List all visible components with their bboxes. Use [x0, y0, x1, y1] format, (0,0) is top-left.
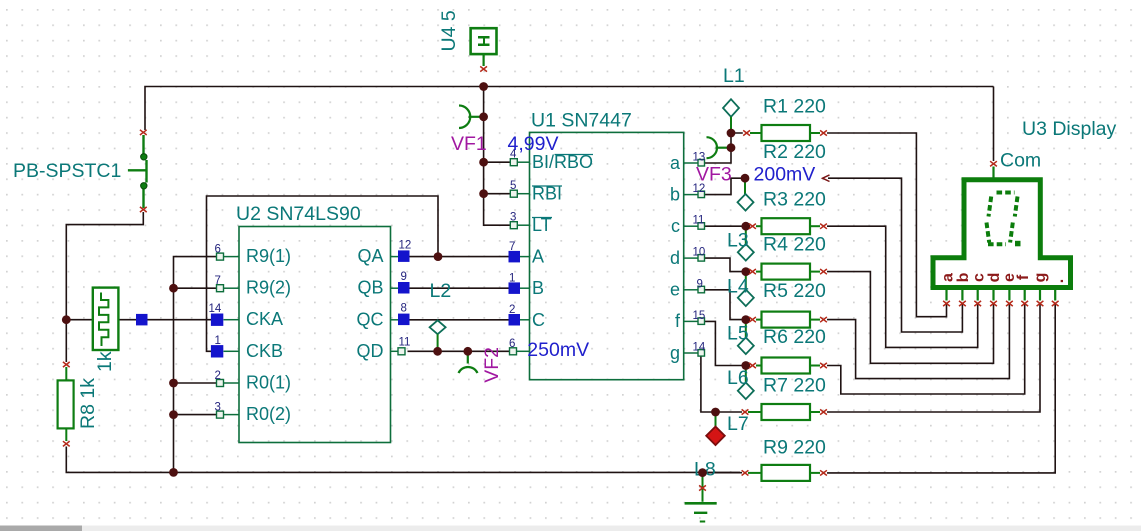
logic probe diamond (b row): [744, 180, 746, 194]
wire segment g net to display pin g: [827, 304, 1040, 412]
svg-text:.: .: [1050, 279, 1067, 283]
svg-text:R1 220: R1 220: [763, 96, 826, 118]
logic probe L7 (red, lit): [715, 414, 717, 427]
svg-text:15: 15: [693, 310, 706, 322]
svg-text:U1 SN7447: U1 SN7447: [531, 110, 632, 132]
svg-text:d: d: [670, 248, 680, 268]
wire R0(2) stub: [174, 414, 217, 416]
unconnected wire arrow (segment b net): [823, 175, 830, 182]
logic probe L5: [745, 322, 747, 338]
svg-text:RBI: RBI: [532, 184, 562, 204]
svg-text:VF3: VF3: [696, 164, 732, 186]
resistor R9 body (dp row): [748, 465, 820, 481]
wire U1 pin g down to L7 row: [701, 355, 742, 413]
svg-text:14: 14: [209, 303, 222, 315]
U1 pin 7 blue square A: [509, 251, 521, 263]
wire RBI stub: [484, 193, 511, 195]
wire segment e net R6 to display pin e: [827, 304, 1009, 379]
svg-text:250mV: 250mV: [527, 339, 589, 361]
wire R9 right to display dp pin: [827, 304, 1055, 473]
wire U1 pin c to R4: [704, 225, 749, 227]
display decimal point: [1015, 241, 1021, 247]
svg-text:1: 1: [215, 335, 221, 347]
logic probe L6: [745, 368, 747, 383]
logic probe L2 diamond (between U1 C and D rows): [430, 320, 446, 334]
wire R0(1) stub: [174, 382, 217, 384]
wire segment b net arrow to display pin b: [828, 178, 962, 332]
svg-text:6: 6: [509, 338, 515, 350]
svg-text:R8 1k: R8 1k: [77, 378, 99, 429]
svg-text:L6: L6: [727, 367, 749, 389]
wire QB to U1 B: [410, 287, 510, 289]
resistor R1 (segment a row): [750, 125, 820, 141]
L1 stem: [730, 117, 732, 129]
wire segment f net R7 to display pin f: [827, 304, 1025, 394]
svg-text:QC: QC: [357, 309, 384, 329]
wire U1 pin a up to R1 row: [704, 133, 743, 163]
red x connection marks: [63, 66, 1059, 490]
svg-text:L2: L2: [430, 280, 452, 302]
IC U2 SN74LS90 box: [239, 227, 391, 443]
logic probe L1 diamond: [723, 99, 739, 117]
svg-text:LT: LT: [532, 215, 552, 235]
U1 pin name overlines: [532, 155, 593, 218]
svg-text:QA: QA: [357, 246, 383, 266]
wire R8 bottom to ground rail: [66, 447, 740, 473]
svg-text:U4 5: U4 5: [438, 10, 460, 51]
svg-text:L7: L7: [727, 413, 749, 435]
svg-text:8: 8: [401, 303, 407, 315]
wire switch bottom to left rail: [66, 212, 143, 362]
digital high source U4 H box: [471, 28, 497, 66]
voltage probe VF2 arc: [459, 354, 478, 374]
wire U1 pin f down to R7 row: [704, 321, 749, 365]
svg-text:a: a: [940, 273, 957, 282]
svg-text:CKB: CKB: [246, 341, 283, 361]
wire U1 pin b up to VF3 node: [704, 178, 745, 194]
wire QA to CKB feedback: [207, 196, 439, 351]
U2 pin stubs: [224, 257, 400, 415]
clock source 1k: [93, 288, 119, 350]
resistor R8: [58, 367, 74, 441]
logic probe L3: [745, 228, 747, 244]
display digit 0.: [987, 193, 1018, 245]
svg-text:R9 220: R9 220: [763, 437, 826, 459]
svg-text:7: 7: [509, 241, 515, 253]
svg-text:PB-SPSTC1: PB-SPSTC1: [13, 160, 121, 182]
display pin stubs: [947, 290, 1056, 301]
svg-text:f: f: [1015, 274, 1032, 280]
U1 pin 2 blue square C: [509, 314, 521, 326]
svg-text:9: 9: [697, 278, 703, 290]
7-segment display U3 outline: [933, 180, 1071, 288]
wire U1 left rail BI/RBO RBI LT: [484, 87, 511, 226]
resistor R5 body (d row): [756, 264, 820, 280]
svg-text:R2 220: R2 220: [763, 141, 826, 163]
U1 pin 1 blue square B: [509, 282, 521, 294]
svg-text:L5: L5: [727, 323, 749, 345]
resistor body (g row): [748, 404, 820, 420]
svg-text:g: g: [670, 343, 680, 363]
voltage probe VF3 arc: [707, 137, 729, 158]
wire clock source left to rail: [66, 319, 93, 321]
U2 pin 2 square: [217, 380, 224, 387]
svg-text:3: 3: [215, 402, 221, 414]
svg-text:e: e: [670, 280, 680, 300]
svg-text:3: 3: [510, 212, 516, 224]
display Com lead: [992, 167, 994, 180]
wire QD to U1 D: [408, 350, 510, 352]
svg-text:12: 12: [399, 239, 412, 251]
svg-text:6: 6: [215, 244, 221, 256]
U2 pin 6 square: [217, 253, 224, 260]
display segment letters: [940, 272, 1068, 283]
blue net square on CKA wire: [136, 314, 148, 326]
svg-text:R9(2): R9(2): [246, 278, 291, 298]
svg-text:L4: L4: [727, 276, 749, 298]
svg-text:2: 2: [215, 370, 221, 382]
svg-text:200mV: 200mV: [754, 164, 816, 186]
svg-text:2: 2: [509, 304, 515, 316]
resistor R6 body (e row): [756, 312, 820, 328]
resistor R7 body (f row): [756, 358, 820, 374]
pushbutton PB-SPSTC1: [128, 135, 147, 208]
svg-text:R6 220: R6 220: [763, 326, 826, 348]
U2 pin 9 blue square QB: [398, 282, 410, 294]
U1 pin stubs: [516, 162, 698, 353]
svg-text:R0(2): R0(2): [246, 404, 291, 424]
svg-text:L1: L1: [723, 65, 745, 87]
U2 pin 8 blue square QC: [398, 314, 410, 326]
ground symbol: [685, 475, 717, 522]
svg-text:A: A: [532, 247, 544, 267]
wire U1 pin e down to R6 row: [704, 290, 749, 320]
svg-text:g: g: [1032, 273, 1049, 283]
svg-text:5: 5: [510, 180, 516, 192]
svg-text:B: B: [532, 278, 544, 298]
svg-text:VF1: VF1: [451, 133, 487, 155]
U2 pin 14 blue square CKA: [211, 314, 223, 326]
U1 right pin squares a-g: [698, 160, 705, 167]
U1 pin 6 square D: [510, 348, 517, 355]
wire segment d net R5 to display pin d: [827, 272, 994, 364]
resistor R4 body (c row): [756, 218, 820, 234]
svg-text:R9(1): R9(1): [246, 246, 291, 266]
pushbutton contacts: [141, 154, 147, 160]
svg-text:C: C: [532, 310, 545, 330]
svg-text:b: b: [670, 184, 680, 204]
svg-text:CKA: CKA: [246, 309, 283, 329]
svg-text:BI/RBO: BI/RBO: [532, 152, 593, 172]
svg-text:L3: L3: [727, 230, 749, 252]
U2 pin 7 square: [217, 285, 224, 292]
wire top rail from switch to display Com column: [145, 87, 994, 131]
svg-text:U3 Display: U3 Display: [1022, 118, 1117, 140]
wire BI/RBO stub: [484, 161, 511, 163]
wire ground rail right of L8 to R9 left lead: [705, 472, 742, 474]
svg-text:H: H: [474, 35, 493, 47]
logic probe L4: [745, 274, 747, 290]
U2 pin 1 blue square CKB: [211, 345, 223, 357]
svg-text:R5 220: R5 220: [763, 280, 826, 302]
svg-text:11: 11: [399, 337, 411, 349]
wire U1 pin d down to R5 row: [704, 258, 749, 272]
svg-text:QB: QB: [357, 278, 383, 298]
voltage probe VF1 arc: [459, 106, 480, 129]
U1 pin 3 square LT: [510, 222, 517, 229]
svg-text:R4 220: R4 220: [763, 234, 826, 256]
svg-text:QD: QD: [357, 341, 384, 361]
U2 pin 12 blue square QA: [398, 250, 410, 262]
svg-text:1k: 1k: [94, 351, 116, 372]
wire R9(2) stub: [174, 287, 217, 289]
IC U1 SN7447 box: [530, 132, 684, 379]
svg-text:11: 11: [693, 215, 705, 227]
wire QC to U1 C: [410, 319, 510, 321]
svg-text:1: 1: [509, 272, 515, 284]
U2 pin 3 square: [217, 411, 224, 418]
U1 pin 5 square RBI: [510, 190, 517, 197]
svg-text:13: 13: [693, 152, 706, 164]
svg-text:4,99V: 4,99V: [508, 133, 559, 155]
wire left rail R9(1) R9(2) R0(1) R0(2): [174, 257, 217, 473]
svg-text:7: 7: [215, 275, 221, 287]
svg-text:9: 9: [401, 271, 407, 283]
svg-text:14: 14: [693, 342, 706, 354]
svg-text:R0(1): R0(1): [246, 373, 291, 393]
svg-text:U2 SN74LS90: U2 SN74LS90: [236, 203, 361, 225]
wire segment c net R4 to display pin c: [827, 226, 978, 347]
wire clock source right to CKA: [118, 319, 211, 321]
svg-text:c: c: [671, 216, 680, 236]
svg-text:VF2: VF2: [481, 347, 503, 383]
U2 pin 11 square QD: [398, 348, 405, 355]
wire QA to U1 A: [410, 256, 510, 258]
svg-text:Com: Com: [1000, 149, 1041, 171]
svg-text:R3 220: R3 220: [763, 189, 826, 211]
svg-text:R7 220: R7 220: [763, 375, 826, 397]
U1 pin 4 square BI/RBO: [510, 159, 517, 166]
svg-text:a: a: [670, 153, 681, 173]
wire Com column down to display: [993, 87, 995, 162]
svg-text:10: 10: [693, 247, 706, 259]
scrollbar strip: [0, 526, 1141, 531]
wire segment a net R1 to display pin a: [827, 133, 947, 317]
